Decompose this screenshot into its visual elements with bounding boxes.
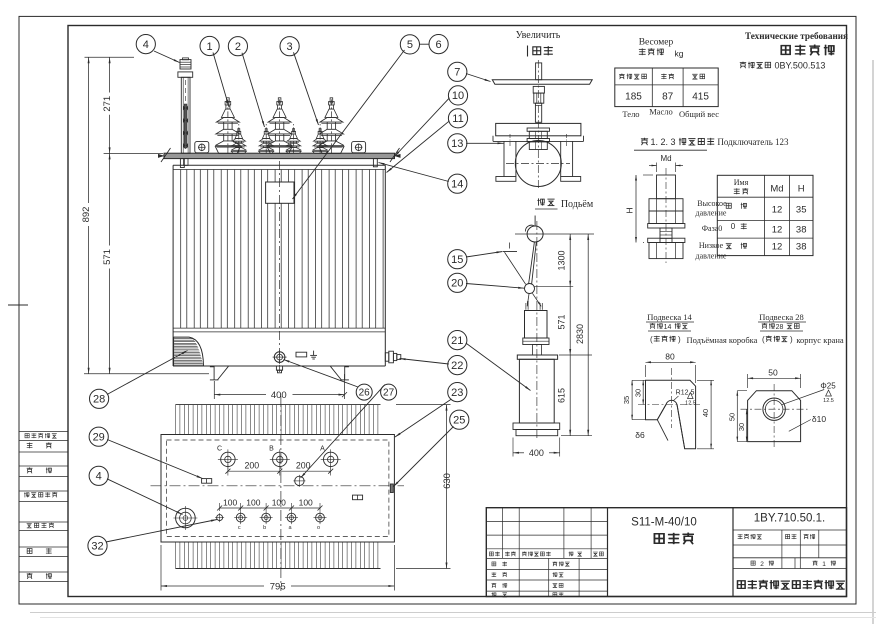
svg-text:1: 1 xyxy=(207,41,213,53)
dimension 271 xyxy=(102,57,113,153)
svg-text:185: 185 xyxy=(625,91,642,102)
company name CJK xyxy=(737,581,745,589)
svg-text:0BY.500.513: 0BY.500.513 xyxy=(775,60,826,70)
lift cables xyxy=(529,242,537,284)
svg-text:35: 35 xyxy=(622,396,631,404)
lift box lug marks xyxy=(526,303,542,310)
bolt bottom nut xyxy=(649,243,683,259)
svg-text:Подвеска 14: Подвеска 14 xyxy=(647,312,692,322)
dimension H xyxy=(625,175,654,243)
left margin labels xyxy=(24,433,57,579)
svg-text:S11-M-40/10: S11-M-40/10 xyxy=(631,517,697,529)
lid lifting lug left xyxy=(195,142,209,153)
title block right grid xyxy=(733,530,847,569)
corrugated fin wall xyxy=(181,170,383,329)
plan view tank inner dashed wall xyxy=(167,440,389,537)
svg-text:87: 87 xyxy=(662,91,674,102)
svg-text:5: 5 xyxy=(407,39,413,51)
svg-text:давление: давление xyxy=(696,252,727,261)
lift neck xyxy=(533,345,542,356)
svg-text:892: 892 xyxy=(81,207,92,223)
svg-text:38: 38 xyxy=(796,225,807,236)
svg-text:12.5: 12.5 xyxy=(685,401,696,407)
border centering mark xyxy=(8,304,28,306)
LV bushing c xyxy=(231,124,246,153)
podveska28 title xyxy=(758,312,806,322)
dimension 400 (feet) xyxy=(214,374,347,401)
svg-text:Фаза0: Фаза0 xyxy=(702,224,723,233)
dimension 795 xyxy=(161,545,394,593)
dimension 571 lift xyxy=(557,287,572,355)
svg-text:2: 2 xyxy=(235,41,241,53)
bracket outline (item 14) xyxy=(646,380,696,449)
plate centerlines xyxy=(741,384,808,448)
svg-text:Φ25: Φ25 xyxy=(820,382,836,391)
bottom drain plug (item 26) xyxy=(273,350,287,373)
callout 22 xyxy=(448,356,467,375)
sheet count row xyxy=(751,560,835,567)
svg-text:23: 23 xyxy=(451,387,463,399)
plan view lower fin bank xyxy=(176,542,381,569)
svg-text:50: 50 xyxy=(768,368,778,378)
svg-text:32: 32 xyxy=(91,541,103,553)
dimension 400 lift xyxy=(513,438,560,458)
LV bushing b xyxy=(259,124,274,153)
dimension 80 xyxy=(646,352,696,384)
detail centerlines xyxy=(537,60,539,190)
lift dims ext lines xyxy=(515,234,594,436)
callout 7 xyxy=(448,62,467,81)
svg-text:3: 3 xyxy=(287,41,293,53)
svg-text:14: 14 xyxy=(451,179,463,191)
plate hole xyxy=(763,398,785,420)
transformer lid (top cover) xyxy=(158,148,401,162)
svg-text:): ) xyxy=(790,335,793,344)
lift hook xyxy=(525,216,543,243)
label delta10 xyxy=(789,414,827,431)
detail channel left leg xyxy=(496,134,516,181)
left margin signature table xyxy=(19,432,68,582)
svg-text:1: 1 xyxy=(822,561,826,568)
svg-text:25: 25 xyxy=(453,415,465,427)
bolt threaded stem xyxy=(660,228,672,243)
svg-text:c: c xyxy=(238,525,241,531)
callout 15 xyxy=(448,250,467,269)
svg-text:Масло: Масло xyxy=(649,107,673,117)
thermometer seat (item 27) xyxy=(293,475,305,487)
svg-text:100: 100 xyxy=(299,497,313,507)
svg-text:35: 35 xyxy=(796,205,807,216)
callout 25 xyxy=(450,410,469,429)
svg-text:30: 30 xyxy=(633,389,642,397)
svg-text:1300: 1300 xyxy=(557,250,567,270)
svg-text:12: 12 xyxy=(772,242,783,253)
plug left (item 29) xyxy=(202,479,212,484)
svg-text:22: 22 xyxy=(451,360,463,372)
svg-text:6: 6 xyxy=(436,39,442,51)
right foot xyxy=(330,366,349,380)
svg-text:C: C xyxy=(217,446,222,453)
svg-text:Весомер: Весомер xyxy=(639,38,674,48)
lift box flange xyxy=(523,338,549,345)
lifting label CJK xyxy=(535,198,558,209)
HV bushing 2 xyxy=(267,98,292,154)
podveska28 subtitle xyxy=(762,335,844,345)
section flag I xyxy=(503,242,526,285)
bottom plate xyxy=(296,352,307,357)
svg-text:Низкое: Низкое xyxy=(699,241,724,250)
svg-text:Md: Md xyxy=(770,184,783,195)
plate outline (item 28) xyxy=(748,391,801,442)
svg-text:28: 28 xyxy=(776,324,784,331)
callout 29 xyxy=(89,427,108,446)
terminal table row LV xyxy=(696,241,807,261)
lift centerline xyxy=(536,221,538,440)
dimension 100 LV spacing xyxy=(217,497,322,511)
svg-text:271: 271 xyxy=(102,96,113,112)
drain valve plan (item 4) xyxy=(173,506,197,530)
svg-text:100: 100 xyxy=(246,497,260,507)
nameplate (items 5,6) xyxy=(266,182,294,203)
oil level gauge (item 4) xyxy=(178,58,193,166)
tank centerline xyxy=(279,161,281,372)
svg-text:11: 11 xyxy=(452,113,463,125)
svg-text:40: 40 xyxy=(701,409,710,417)
dimension 615 xyxy=(557,355,572,436)
plan view upper fin bank xyxy=(176,405,381,435)
terminal table row HV xyxy=(696,199,807,218)
dimension 630 xyxy=(396,405,453,569)
svg-text:1BY.710.50.1.: 1BY.710.50.1. xyxy=(754,513,825,525)
svg-text:4: 4 xyxy=(143,39,149,51)
callout 2 (0-phase bushing) xyxy=(228,37,247,56)
callout 14 xyxy=(448,174,467,193)
right grid labels xyxy=(738,534,815,539)
dimension 30 plate xyxy=(737,409,748,441)
dimension 30 bracket xyxy=(633,380,644,404)
dimension 35 xyxy=(622,380,645,419)
svg-text:400: 400 xyxy=(529,448,544,458)
detail wheel xyxy=(515,141,561,187)
svg-text:27: 27 xyxy=(383,387,395,398)
podveska28 title CJK xyxy=(760,323,803,331)
svg-text:400: 400 xyxy=(271,390,287,401)
svg-text:H: H xyxy=(625,207,635,213)
svg-text:615: 615 xyxy=(557,388,567,403)
svg-text:10: 10 xyxy=(452,90,464,102)
bolt hex nuts xyxy=(649,199,683,224)
svg-text:200: 200 xyxy=(244,461,259,471)
weight table grid xyxy=(615,68,718,107)
callout 13 xyxy=(448,134,467,153)
bolt head xyxy=(657,175,676,199)
LV terminal a xyxy=(285,511,298,531)
HV terminal A xyxy=(320,446,341,470)
callout 1 (HV bushing) xyxy=(200,36,219,55)
svg-text:1. 2. 3: 1. 2. 3 xyxy=(650,137,675,147)
dimension 1300 xyxy=(557,234,572,287)
detail title zoom CJK xyxy=(528,46,553,57)
svg-text:(: ( xyxy=(762,335,765,344)
lid clamp right (item 14) xyxy=(373,159,377,167)
plug right xyxy=(353,495,363,500)
page edge shadow xyxy=(872,60,874,624)
svg-text:Md: Md xyxy=(660,154,671,163)
lift tank cylinder xyxy=(519,359,554,423)
bracket centerlines xyxy=(638,368,700,428)
callout 28 xyxy=(90,389,109,408)
lift active part box xyxy=(525,311,548,339)
dimension 200 HV spacing xyxy=(225,461,333,476)
svg-text:Общий вес: Общий вес xyxy=(679,109,719,119)
svg-text:38: 38 xyxy=(796,242,807,253)
callouts 5,6 (nameplate) xyxy=(400,35,419,54)
svg-text:Увеличить: Увеличить xyxy=(516,30,561,41)
callout 27 xyxy=(381,384,397,400)
finish mark bracket xyxy=(685,393,696,407)
dimension 571 xyxy=(102,153,113,373)
svg-text:Подвеска 28: Подвеска 28 xyxy=(759,312,804,322)
bolt centerline xyxy=(665,168,667,263)
bolt washer xyxy=(648,224,685,229)
title block outline xyxy=(486,508,846,597)
svg-text:δ6: δ6 xyxy=(635,430,645,440)
plan view centerline vertical xyxy=(280,396,282,591)
detail plate bar xyxy=(492,80,592,85)
dimension Md xyxy=(649,154,683,172)
svg-text:13: 13 xyxy=(451,138,463,150)
hatched fin end block (item 28) xyxy=(174,337,204,366)
svg-text:корпус крана: корпус крана xyxy=(796,335,844,345)
revision table xyxy=(486,508,607,597)
bracket slot lines xyxy=(657,405,684,449)
LV terminal c xyxy=(234,511,247,531)
svg-text:30: 30 xyxy=(737,423,746,431)
assembly note xyxy=(740,60,826,70)
svg-text:571: 571 xyxy=(102,249,113,265)
callout 4 lower (drain plug plan) xyxy=(89,466,108,485)
lift base flanges xyxy=(513,423,560,430)
svg-text:795: 795 xyxy=(270,582,286,593)
dimension 40 xyxy=(697,380,714,449)
lift shackle xyxy=(525,284,535,294)
extension lines left xyxy=(84,57,209,374)
bolt lower washer xyxy=(648,238,685,242)
svg-text:4: 4 xyxy=(96,471,102,483)
detail channel right leg xyxy=(561,134,581,181)
lid clamp left xyxy=(180,159,184,168)
svg-text:29: 29 xyxy=(93,432,105,444)
dimension 50 left xyxy=(727,391,747,442)
svg-text:12.5: 12.5 xyxy=(823,398,834,404)
HV terminal B xyxy=(269,446,290,470)
callout 4 (oil gauge) xyxy=(136,35,155,54)
callout 3 (LV bushing) xyxy=(280,37,299,56)
svg-text:15: 15 xyxy=(451,254,463,266)
detail bolt shaft xyxy=(535,103,541,122)
svg-text:21: 21 xyxy=(451,335,463,347)
svg-text:200: 200 xyxy=(296,461,311,471)
detail wheel axle nuts xyxy=(527,128,549,150)
podveska14 subtitle xyxy=(650,335,758,345)
signature row labels xyxy=(492,561,570,597)
callout 11 xyxy=(448,109,467,128)
terminal table header xyxy=(734,178,805,195)
svg-text:2: 2 xyxy=(760,561,764,568)
svg-text:δ10: δ10 xyxy=(812,414,826,424)
svg-text:kg: kg xyxy=(675,49,684,59)
svg-text:Технические требования: Технические требования xyxy=(745,31,848,41)
svg-text:0: 0 xyxy=(731,222,736,231)
svg-text:100: 100 xyxy=(272,497,286,507)
svg-text:b: b xyxy=(263,525,266,531)
svg-text:630: 630 xyxy=(442,473,453,489)
svg-text:Тело: Тело xyxy=(622,109,639,119)
svg-text:14: 14 xyxy=(664,324,672,331)
lid lifting lug right xyxy=(352,142,366,153)
drain valve right (item 22) xyxy=(385,351,401,363)
left foot xyxy=(210,366,229,380)
svg-text:12: 12 xyxy=(772,205,783,216)
detail stem xyxy=(536,63,542,80)
HV terminal C xyxy=(217,446,238,470)
svg-text:o: o xyxy=(317,525,320,531)
LV bushing o xyxy=(313,124,328,153)
grounding bolt right edge (item 25) xyxy=(390,484,393,493)
callout 21 xyxy=(448,331,467,350)
svg-text:давление: давление xyxy=(696,209,727,218)
plan view centerline horizontal xyxy=(151,485,405,487)
HV bushing 3 xyxy=(319,98,344,154)
weight table title CJK kg xyxy=(639,48,684,58)
callout 32 xyxy=(88,536,107,555)
svg-text:7: 7 xyxy=(454,67,460,79)
svg-text:26: 26 xyxy=(359,387,371,398)
callout 10 xyxy=(448,86,467,105)
plan view tank outline xyxy=(161,435,394,543)
LV terminal row xyxy=(215,513,224,522)
HV bushing 1 xyxy=(215,98,240,154)
terminal header CJK xyxy=(634,137,714,150)
lift tie rods xyxy=(527,293,541,306)
svg-text:80: 80 xyxy=(665,352,675,362)
svg-text:Подъёмная коробка: Подъёмная коробка xyxy=(687,335,758,345)
svg-text:20: 20 xyxy=(451,278,463,290)
svg-text:12: 12 xyxy=(772,225,783,236)
podveska14 title xyxy=(646,312,694,322)
LV terminal o xyxy=(314,511,327,531)
detail bolt nut xyxy=(533,86,544,103)
ground symbol xyxy=(310,351,317,359)
callout 23 xyxy=(448,383,467,402)
svg-text:Подьём: Подьём xyxy=(561,199,594,210)
lift lid plate xyxy=(517,355,557,359)
svg-text:H: H xyxy=(798,184,805,195)
dimension 50 top xyxy=(748,368,801,389)
svg-text:B: B xyxy=(269,446,274,453)
revision header labels xyxy=(489,551,603,556)
svg-text:Имя: Имя xyxy=(734,178,749,187)
svg-text:28: 28 xyxy=(93,394,105,406)
LV bushing a xyxy=(286,124,301,153)
detail channel bar xyxy=(493,123,584,141)
svg-text:50: 50 xyxy=(727,413,736,421)
svg-text:I: I xyxy=(508,242,510,251)
svg-text:2830: 2830 xyxy=(575,324,585,344)
dimension 2830 xyxy=(575,234,589,436)
svg-text:415: 415 xyxy=(692,91,709,102)
svg-text:571: 571 xyxy=(557,314,567,329)
svg-text:Высокое: Высокое xyxy=(697,199,727,208)
dimension 892 xyxy=(81,57,92,374)
svg-text:A: A xyxy=(320,446,325,453)
callout 26 xyxy=(356,384,372,400)
terminal table row phase0 xyxy=(702,222,807,236)
callout 20 xyxy=(448,273,467,292)
svg-text:100: 100 xyxy=(223,497,237,507)
weight table headers CJK xyxy=(619,74,704,80)
label phi25 xyxy=(782,382,837,405)
podveska14 title CJK xyxy=(648,323,691,331)
svg-text:): ) xyxy=(678,335,681,344)
drawing name CJK xyxy=(654,534,664,544)
label R12.5 xyxy=(674,390,695,401)
svg-text:Подключатель 123: Подключатель 123 xyxy=(717,137,789,147)
tank body outline xyxy=(173,165,385,366)
terminal table grid xyxy=(717,175,813,255)
svg-text:(: ( xyxy=(650,335,653,344)
LV terminal b xyxy=(260,511,273,531)
tech requirements CJK xyxy=(781,46,790,55)
title block vertical dividers xyxy=(608,508,734,597)
